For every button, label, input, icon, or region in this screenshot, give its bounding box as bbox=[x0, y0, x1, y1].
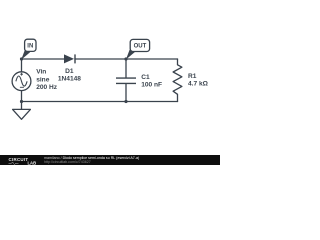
wire ground stem bbox=[21, 102, 23, 110]
wire resistor top stem bbox=[177, 59, 179, 65]
wire capacitor bottom stem bbox=[125, 84, 127, 102]
voltage source sine glyph bbox=[16, 76, 27, 86]
junction node B (OUT) bbox=[124, 57, 127, 60]
svg-text:Vin: Vin bbox=[36, 69, 46, 76]
voltage source plus sign bbox=[20, 73, 23, 76]
IN flag pointer bbox=[21, 50, 30, 60]
svg-text:LAB: LAB bbox=[28, 161, 37, 165]
wire top rail right (diode cathode to resistor corner) bbox=[75, 58, 178, 60]
svg-text:D1: D1 bbox=[65, 68, 74, 75]
diode D1 triangle bbox=[64, 54, 74, 63]
junction node A (IN) bbox=[20, 57, 23, 60]
junction node D (capacitor bottom) bbox=[124, 100, 127, 103]
wire source top stem bbox=[21, 59, 23, 72]
OUT flag box bbox=[130, 39, 149, 51]
IN flag box bbox=[25, 39, 36, 51]
wire source bottom stem bbox=[21, 91, 23, 102]
svg-text:sine: sine bbox=[36, 76, 50, 83]
svg-text:200 Hz: 200 Hz bbox=[36, 84, 58, 91]
ground symbol bbox=[13, 109, 31, 119]
svg-text:IN: IN bbox=[27, 44, 33, 50]
diode D1 cathode bar bbox=[74, 54, 76, 63]
svg-text:R1: R1 bbox=[188, 73, 197, 80]
footer bar bbox=[0, 155, 220, 165]
capacitor C1 top plate bbox=[116, 77, 136, 79]
svg-text:OUT: OUT bbox=[134, 44, 147, 50]
resistor R1 zigzag bbox=[173, 65, 182, 95]
wire top rail left (node A to diode anode) bbox=[22, 58, 65, 60]
voltage source minus sign bbox=[20, 86, 24, 88]
footer CircuitLab logo wave bbox=[9, 162, 19, 164]
voltage source V1 circle bbox=[12, 72, 31, 91]
capacitor C1 bottom plate bbox=[116, 82, 136, 84]
wire resistor bottom stem bbox=[177, 94, 179, 101]
wire capacitor top stem bbox=[125, 59, 127, 77]
OUT flag pointer bbox=[126, 50, 135, 60]
junction node C (source bottom) bbox=[20, 100, 23, 103]
svg-text:CIRCUIT: CIRCUIT bbox=[9, 157, 29, 162]
svg-text:C1: C1 bbox=[141, 74, 150, 81]
wire bottom rail bbox=[22, 101, 178, 103]
svg-text:http://circuitlab.com/c/743627: http://circuitlab.com/c/743627 bbox=[44, 160, 91, 164]
svg-text:4.7 kΩ: 4.7 kΩ bbox=[188, 80, 209, 87]
svg-text:100 nF: 100 nF bbox=[141, 82, 162, 89]
svg-text:1N4148: 1N4148 bbox=[58, 76, 81, 83]
